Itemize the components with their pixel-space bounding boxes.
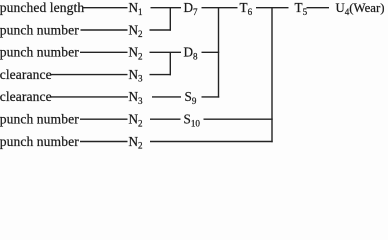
- wire S9 to collector: [202, 96, 220, 98]
- wire clearance row4 to N3: [50, 74, 128, 76]
- wire T6 to T5: [256, 7, 289, 9]
- wire punch number row6 to N2: [80, 118, 128, 120]
- svg-text:punch number: punch number: [0, 134, 79, 149]
- wire N1 to D7: [151, 7, 182, 9]
- svg-text:clearance: clearance: [0, 89, 52, 104]
- wire N2 row7 to right collector: [150, 141, 273, 143]
- svg-text:U4(Wear): U4(Wear): [336, 1, 385, 17]
- wire S10 to right collector: [204, 118, 273, 120]
- wire clearance row5 to N3: [51, 96, 128, 98]
- wire punch number row3 to N2: [80, 51, 128, 53]
- wire N2 row2 to bracket: [150, 29, 172, 31]
- svg-text:punch number: punch number: [0, 112, 79, 127]
- wire N3 row5 to S9: [152, 96, 181, 98]
- bracket vertical rows 1-2: [169, 8, 171, 31]
- wire N3 row4 to bracket: [150, 74, 172, 76]
- wire N2 row3 to D8: [150, 51, 182, 53]
- collector vertical D7 D8 S9: [218, 8, 220, 98]
- svg-text:punched length: punched length: [0, 0, 84, 15]
- wire punched length to N1: [83, 7, 128, 9]
- svg-text:clearance: clearance: [0, 67, 52, 82]
- svg-text:punch number: punch number: [0, 22, 79, 37]
- wire punch number row7 to N2: [80, 141, 128, 143]
- wire N2 row6 to S10: [150, 118, 181, 120]
- svg-text:punch number: punch number: [0, 45, 79, 60]
- wire T5 to U4: [307, 7, 330, 9]
- wire D7 to T6: [202, 7, 238, 9]
- right collector vertical S10 N2: [271, 8, 273, 143]
- wire D8 to collector: [202, 51, 220, 53]
- wire punch number row2 to N2: [81, 29, 128, 31]
- bracket vertical rows 3-4: [169, 52, 171, 75]
